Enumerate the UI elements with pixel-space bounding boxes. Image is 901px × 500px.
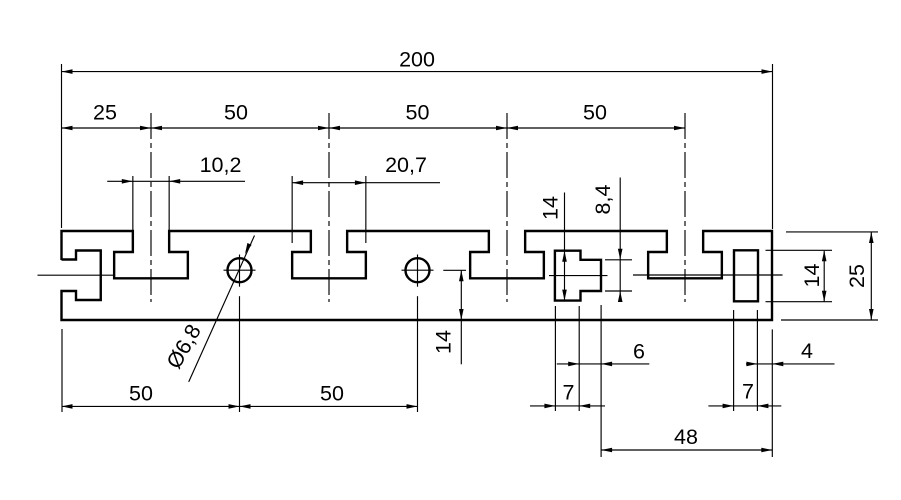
svg-text:25: 25 bbox=[93, 101, 117, 125]
svg-text:7: 7 bbox=[742, 380, 754, 404]
svg-text:10,2: 10,2 bbox=[200, 153, 242, 177]
svg-text:50: 50 bbox=[583, 101, 607, 125]
svg-text:14: 14 bbox=[800, 264, 824, 288]
svg-text:6: 6 bbox=[633, 340, 645, 364]
svg-text:200: 200 bbox=[399, 48, 435, 72]
svg-text:14: 14 bbox=[432, 330, 456, 354]
svg-text:25: 25 bbox=[845, 264, 869, 288]
svg-text:7: 7 bbox=[563, 381, 575, 405]
svg-text:20,7: 20,7 bbox=[385, 153, 427, 177]
svg-text:50: 50 bbox=[406, 101, 430, 125]
svg-text:4: 4 bbox=[801, 339, 813, 363]
svg-text:50: 50 bbox=[224, 101, 248, 125]
svg-text:50: 50 bbox=[320, 382, 344, 406]
svg-text:8,4: 8,4 bbox=[591, 185, 615, 215]
svg-text:50: 50 bbox=[129, 382, 153, 406]
svg-text:48: 48 bbox=[674, 425, 698, 449]
svg-text:14: 14 bbox=[539, 196, 563, 220]
